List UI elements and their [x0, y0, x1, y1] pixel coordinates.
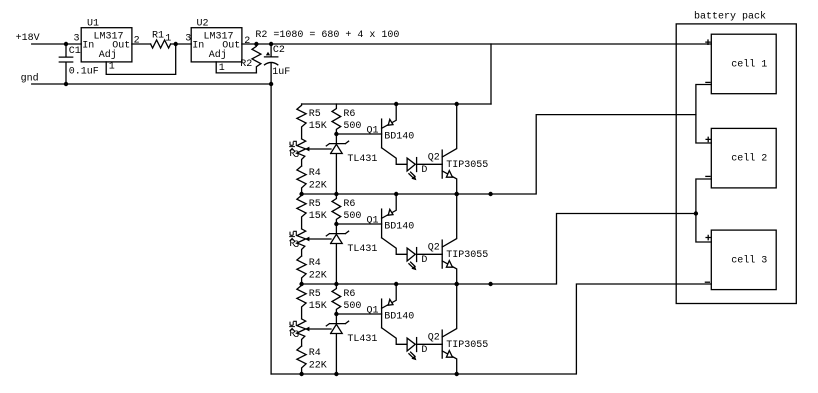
svg-text:+18V: +18V: [16, 33, 40, 44]
svg-text:1: 1: [219, 63, 225, 74]
svg-text:R2 =1080 = 680 + 4 x 100: R2 =1080 = 680 + 4 x 100: [255, 30, 399, 41]
svg-text:3: 3: [185, 34, 191, 45]
svg-text:2: 2: [134, 36, 140, 47]
svg-text:R1: R1: [152, 31, 164, 42]
svg-text:In: In: [82, 40, 94, 51]
svg-text:cell 3: cell 3: [731, 254, 767, 266]
svg-text:0.1uF: 0.1uF: [69, 67, 99, 78]
svg-text:1: 1: [109, 62, 115, 73]
svg-text:Adj: Adj: [209, 49, 227, 61]
svg-text:2: 2: [244, 36, 250, 47]
svg-text:3: 3: [74, 34, 80, 45]
svg-text:cell 1: cell 1: [731, 58, 767, 70]
svg-text:In: In: [192, 40, 204, 51]
svg-text:Adj: Adj: [99, 49, 117, 61]
svg-text:cell 2: cell 2: [731, 153, 767, 165]
svg-text:gnd: gnd: [21, 73, 39, 85]
svg-text:U2: U2: [197, 19, 209, 30]
svg-text:C1: C1: [69, 46, 81, 57]
svg-text:1: 1: [165, 33, 171, 44]
svg-text:1uF: 1uF: [272, 67, 290, 78]
svg-text:battery pack: battery pack: [694, 11, 766, 23]
svg-text:C2: C2: [273, 45, 285, 56]
svg-text:R2: R2: [240, 59, 252, 70]
svg-text:U1: U1: [87, 19, 99, 30]
